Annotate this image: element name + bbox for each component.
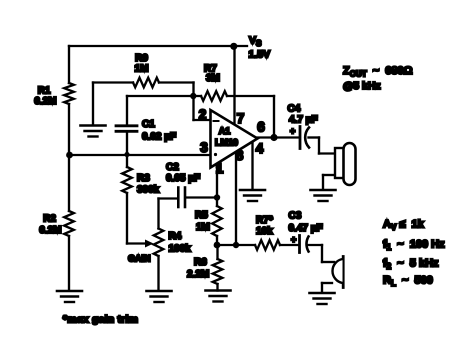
- svg-text:0.02 µF: 0.02 µF: [142, 132, 176, 143]
- svg-text:+: +: [290, 126, 295, 136]
- svg-text:6.2M: 6.2M: [39, 225, 61, 236]
- svg-text:C4: C4: [288, 104, 301, 115]
- svg-text:C3: C3: [289, 211, 302, 222]
- svg-text:6: 6: [257, 120, 265, 135]
- svg-text:R1: R1: [38, 86, 51, 97]
- svg-text:7: 7: [237, 111, 245, 126]
- svg-text:3: 3: [200, 140, 208, 155]
- svg-text:10k: 10k: [256, 226, 273, 237]
- svg-text:2: 2: [199, 107, 207, 122]
- svg-text:4.7 µF: 4.7 µF: [289, 115, 318, 126]
- svg-text:R9: R9: [135, 53, 148, 64]
- svg-text:C2: C2: [166, 162, 179, 173]
- svg-text:1M: 1M: [135, 64, 149, 75]
- svg-text:C1: C1: [142, 119, 155, 130]
- svg-text:3M: 3M: [206, 73, 220, 84]
- svg-text:4: 4: [256, 141, 264, 156]
- svg-text:@5 kHz: @5 kHz: [343, 80, 381, 92]
- svg-text:0.47 µF: 0.47 µF: [289, 223, 323, 234]
- svg-text:6.2M: 6.2M: [34, 96, 56, 107]
- svg-text:R2: R2: [43, 214, 56, 225]
- svg-text:*max gain trim: *max gain trim: [63, 314, 138, 326]
- svg-text:AV ≤ 1k: AV ≤ 1k: [383, 219, 425, 233]
- svg-text:1: 1: [216, 161, 224, 176]
- svg-text:+: +: [291, 235, 296, 245]
- svg-text:f2 ~ 5 kHz: f2 ~ 5 kHz: [383, 258, 439, 272]
- svg-text:R4: R4: [169, 231, 182, 242]
- svg-text:2.2M: 2.2M: [187, 269, 209, 280]
- svg-text:GAIN: GAIN: [128, 254, 151, 264]
- svg-text:100k: 100k: [169, 244, 192, 255]
- svg-text:300k: 300k: [137, 185, 160, 196]
- svg-text:f1 ~ 100 Hz: f1 ~ 100 Hz: [383, 239, 445, 253]
- svg-text:1.5V: 1.5V: [249, 49, 271, 61]
- svg-text:0.05 µF: 0.05 µF: [166, 173, 200, 184]
- svg-text:R3: R3: [137, 173, 150, 184]
- svg-text:8: 8: [236, 148, 244, 163]
- svg-text:RL ~ 500: RL ~ 500: [383, 275, 433, 289]
- svg-text:1M: 1M: [196, 222, 210, 233]
- svg-text:R7*: R7*: [256, 215, 273, 226]
- svg-text:R5: R5: [195, 210, 208, 221]
- svg-text:R6: R6: [194, 257, 207, 268]
- svg-text:LM10: LM10: [215, 138, 238, 148]
- svg-text:A1: A1: [219, 126, 231, 136]
